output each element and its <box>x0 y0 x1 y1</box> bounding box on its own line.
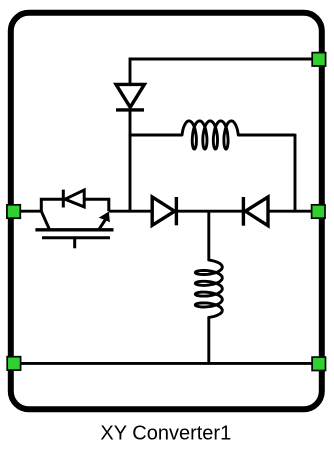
IGBT riser <box>41 199 63 211</box>
wire: L1 right to corner <box>238 134 295 137</box>
port 3 (middle right) <box>312 205 325 218</box>
wire: bottom row (port 4 to port 5) <box>20 362 312 365</box>
IGBT gate line <box>42 236 110 239</box>
port 2 (middle left) <box>7 205 20 218</box>
wire: port 2 to IGBT collector <box>20 210 41 213</box>
IGBT internal diode (pointing left) <box>65 190 84 207</box>
IGBT emitter plate <box>35 228 113 231</box>
port 4 (bottom left) <box>7 357 20 370</box>
inductor L1 (horizontal coil) <box>182 121 238 149</box>
wire: D3 anode to port 3 <box>268 210 312 213</box>
wire: branch from D1 column to inductor L1 <box>129 134 182 137</box>
IGBT gate stub <box>73 238 76 249</box>
wire: top horizontal net (cathode of D1 to port 1) <box>130 59 312 85</box>
port 5 (bottom right) <box>312 357 325 370</box>
wire: middle row junction down to inductor L2 <box>207 211 210 260</box>
diode D3 (pointing left) <box>243 197 268 226</box>
wire: right vertical down to middle row <box>294 134 297 212</box>
IGBT Q1 with anti-parallel diode <box>35 190 113 249</box>
wire: L2 bottom to bottom row <box>207 317 210 363</box>
wire: IGBT emitter to D2 anode <box>109 210 152 213</box>
port 1 (top right) <box>312 53 325 66</box>
svg-text:XY Converter1: XY Converter1 <box>100 422 231 444</box>
IGBT left slant <box>41 211 49 229</box>
diode D1 (top, pointing down) <box>116 84 144 110</box>
IGBT emitter arrow shaft <box>99 220 106 230</box>
IGBT internal diode bar <box>62 190 65 208</box>
diode D2 (pointing right) <box>152 197 176 225</box>
IGBT emitter arrow head <box>99 212 110 223</box>
IGBT rail right <box>84 199 109 211</box>
wire: vertical from D1 anode down to middle row <box>129 110 132 211</box>
wire: middle row D2 cathode to D3 cathode <box>176 210 243 213</box>
inductor L2 (vertical coil) <box>195 260 222 317</box>
